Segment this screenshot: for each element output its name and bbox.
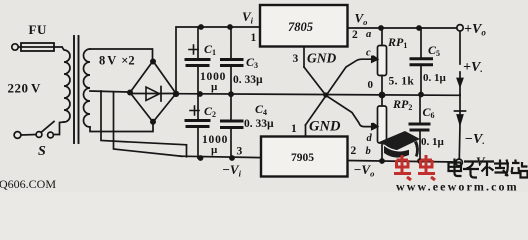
svg-text:GND: GND — [307, 51, 336, 66]
wire left vertex drop — [114, 92, 183, 156]
svg-text:0. 33µ: 0. 33µ — [244, 118, 274, 130]
svg-text:7905: 7905 — [291, 152, 314, 164]
wire +Vi rail — [176, 27, 260, 94]
output terminal -Vo — [456, 159, 463, 166]
svg-text:a: a — [366, 29, 371, 40]
label -Vo pin2 — [348, 161, 457, 163]
svg-text:S: S — [38, 144, 46, 159]
svg-text:b: b — [366, 146, 371, 157]
fuse FU — [12, 43, 62, 51]
node C1 top — [198, 24, 204, 30]
svg-text:Q606.COM: Q606.COM — [0, 177, 56, 191]
node C4 mid — [228, 91, 234, 97]
node C6 bottom — [417, 158, 423, 164]
svg-text:2: 2 — [352, 29, 358, 41]
wire center tap to left vertex — [90, 91, 127, 92]
node RP2 bottom — [379, 158, 385, 164]
node C4 bottom — [229, 155, 235, 161]
output terminal 0 common — [459, 95, 461, 112]
svg-text:0. 1µ: 0. 1µ — [423, 72, 447, 84]
node C1 bottom — [197, 91, 203, 97]
node C5 top — [416, 25, 422, 31]
wire 0V mid rail — [176, 94, 460, 96]
node bridge left — [127, 90, 133, 96]
potentiometer RP2 — [372, 95, 387, 161]
svg-text:220V: 220V — [8, 81, 42, 96]
svg-text:3: 3 — [293, 53, 299, 65]
wire center tap drop — [101, 91, 187, 157]
svg-text:c: c — [366, 48, 371, 59]
label Vo pin2 — [348, 27, 457, 29]
capacitor C5 — [411, 28, 432, 95]
node bridge bottom — [150, 119, 156, 125]
svg-text:1: 1 — [251, 32, 257, 44]
capacitor C4 — [222, 94, 243, 158]
transformer core — [74, 36, 79, 143]
capacitor C6 — [410, 95, 429, 162]
output terminal +Vo — [457, 25, 463, 31]
transformer secondary winding — [84, 49, 91, 127]
svg-text:FU: FU — [29, 22, 47, 37]
node C3 top — [227, 24, 233, 30]
wire -Vi rail — [180, 156, 261, 157]
svg-text:3: 3 — [237, 146, 243, 158]
capacitor C1 — [186, 27, 209, 94]
svg-text:0. 33µ: 0. 33µ — [233, 74, 263, 86]
wire X crossing GND to RP2 wiper — [304, 67, 372, 127]
node C2 bottom — [198, 155, 204, 161]
svg-text:1: 1 — [291, 123, 297, 135]
svg-text:d: d — [367, 133, 373, 144]
capacitor C3 — [222, 27, 243, 94]
svg-text:0. 1µ: 0. 1µ — [421, 136, 445, 148]
svg-text:www.eeworm.com: www.eeworm.com — [396, 180, 519, 193]
svg-text:−V.: −V. — [465, 132, 485, 147]
watermark graduation cap icon — [379, 131, 420, 158]
svg-text:0: 0 — [368, 79, 374, 91]
capacitor C2 — [186, 94, 209, 158]
watermark dianzi xiazaizhan characters — [449, 159, 528, 178]
node C5 bottom — [418, 92, 424, 98]
wire secondary bottom to bridge — [90, 122, 153, 132]
node bridge top — [150, 59, 156, 65]
pin 1 GND stub U2 — [305, 125, 307, 137]
svg-text:GND: GND — [309, 119, 341, 135]
node bridge right — [173, 91, 179, 97]
potentiometer RP1 — [372, 28, 387, 95]
op-amp U1 7805 — [260, 5, 348, 47]
bridge rectifier D — [130, 61, 176, 122]
node RP1 top — [378, 25, 384, 31]
transformer primary winding — [62, 47, 70, 122]
svg-text:7805: 7805 — [288, 20, 313, 34]
svg-text:µ: µ — [211, 81, 218, 93]
output terminal +V. — [459, 72, 461, 95]
svg-text:5. 1k: 5. 1k — [389, 76, 415, 88]
op-amp U2 7905 — [261, 137, 348, 177]
svg-text:+V.: +V. — [463, 60, 483, 75]
node RP1 bottom — [379, 92, 386, 99]
wire secondary top to bridge — [90, 49, 153, 61]
pin 3 GND stub U1 — [303, 47, 305, 68]
wire X crossing GND to RP1 wiper — [306, 59, 373, 125]
node X center — [323, 92, 328, 97]
switch S — [14, 122, 64, 139]
watermark chongchong red characters — [394, 155, 435, 180]
svg-text:2: 2 — [351, 145, 357, 157]
svg-text:µ: µ — [211, 144, 218, 156]
